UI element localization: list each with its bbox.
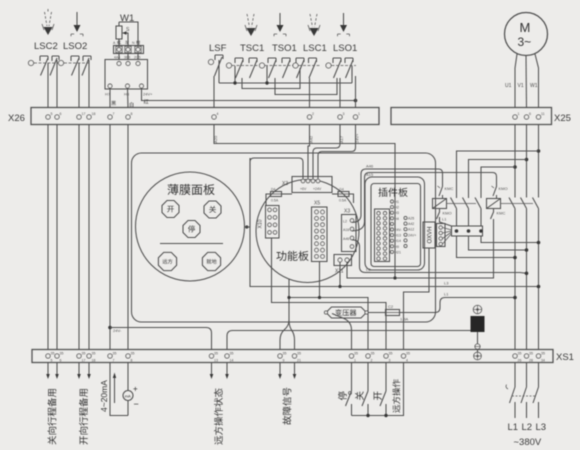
svg-text:4~20mA: 4~20mA [99, 380, 109, 412]
wire LSO2 to X26-17 [78, 75, 80, 108]
svg-text:A12: A12 [408, 228, 414, 232]
KMO aux contact [492, 183, 508, 199]
wire LSF to X26-4 [213, 76, 215, 108]
svg-text:D4: D4 [271, 188, 276, 192]
svg-text:L2: L2 [343, 220, 347, 224]
svg-text:H14: H14 [395, 239, 401, 243]
wire LSC2 to X26-6 [56, 60, 58, 108]
wire X26-7 to XS1 (24V-) [109, 125, 111, 350]
torque switch TSC1 contacts [226, 58, 260, 78]
potentiometer wiper arrow with S [122, 27, 130, 46]
wire membrane panel to X3 pin1 [245, 158, 304, 229]
fuse G4 0.5A [332, 188, 354, 204]
pushbutton stop [346, 363, 352, 416]
svg-text:0.5A: 0.5A [339, 199, 347, 203]
svg-text:X26: X26 [8, 113, 25, 124]
svg-text:A20: A20 [213, 135, 218, 143]
svg-text:4: 4 [406, 359, 408, 363]
wire L1 fuse to phase U [400, 292, 517, 313]
svg-text:LSF: LSF [209, 43, 227, 54]
wire LSF second pole down to link rail [218, 60, 220, 83]
svg-text:2: 2 [312, 112, 314, 116]
terminal strip X25 [391, 108, 571, 125]
svg-text:5: 5 [51, 359, 53, 363]
svg-text:TSC1: TSC1 [240, 43, 264, 54]
title membrane panel [167, 184, 214, 195]
svg-text:24V+: 24V+ [143, 92, 153, 97]
svg-text:L3: L3 [444, 281, 449, 286]
current loop 4-20mA [110, 363, 139, 416]
wire 24V+ from X26-1 to X3 pin4 [318, 125, 360, 179]
svg-text:1: 1 [358, 112, 360, 116]
svg-text:13: 13 [214, 359, 218, 363]
svg-text:H1: H1 [395, 200, 400, 204]
label remote operate [392, 379, 400, 412]
svg-text:6: 6 [529, 112, 531, 116]
svg-text:24V-: 24V- [113, 328, 122, 333]
button close [204, 201, 221, 218]
junction phase W tap [537, 149, 541, 153]
wire phase U to KMC pole3 [481, 167, 515, 198]
svg-text:LSC1: LSC1 [303, 43, 327, 54]
button stop [183, 221, 200, 238]
svg-text:L2: L2 [522, 422, 533, 433]
svg-text:35: 35 [406, 352, 410, 356]
button open [162, 201, 179, 218]
wire filter to XS1 PE [475, 332, 480, 352]
link rail feeding TSC1 TSO1 commons [219, 66, 352, 85]
svg-text:6: 6 [60, 112, 62, 116]
svg-text:G4: G4 [339, 188, 344, 192]
svg-text:A25: A25 [408, 217, 414, 221]
svg-text:KMO: KMO [499, 186, 508, 191]
limit switch LSO1 contacts [326, 58, 356, 78]
svg-text:7: 7 [113, 359, 115, 363]
wire X26-18 to XS1 [88, 125, 90, 350]
KMC interlock contact KMO [437, 209, 452, 227]
svg-text:L3: L3 [536, 422, 547, 433]
svg-text:X3: X3 [344, 209, 350, 215]
svg-text:A46: A46 [366, 164, 374, 169]
wire A46 rail to KMC aux [352, 164, 443, 223]
svg-text:1: 1 [354, 359, 356, 363]
wire X5 to XS1-2 with branch [289, 262, 368, 350]
wire status return rail [227, 331, 471, 350]
wire X26-5 to XS1 [47, 125, 49, 350]
wire rail to X26-1 [355, 101, 357, 108]
svg-text:18: 18 [92, 112, 96, 116]
KMO interlock contact KMC [491, 209, 506, 220]
svg-text:X3: X3 [282, 181, 288, 187]
button remote [158, 252, 176, 270]
contactor coil KMC [433, 199, 447, 209]
connector X3 right [342, 209, 357, 252]
label close travel spare [47, 389, 56, 444]
svg-text:H4: H4 [395, 217, 400, 221]
fuse D4 0.5A [266, 188, 292, 206]
filter block [471, 316, 485, 332]
svg-text:A17: A17 [339, 135, 344, 143]
svg-text:1.3A: 1.3A [400, 317, 409, 322]
svg-text:35: 35 [297, 352, 301, 356]
label fault signal [282, 388, 291, 425]
svg-text:H9: H9 [395, 245, 400, 249]
svg-text:35: 35 [529, 352, 533, 356]
motor M 3~ [505, 13, 548, 56]
svg-text:KMC: KMC [497, 211, 506, 216]
svg-text:V1: V1 [518, 83, 524, 89]
svg-text:3~: 3~ [518, 35, 532, 49]
pushbutton open [380, 363, 386, 416]
limit switch LSC2 contacts [28, 56, 59, 76]
wire XS1-1 to transformer [332, 314, 352, 350]
limit switch LSC1 contacts [293, 58, 320, 78]
svg-text:TSO1: TSO1 [272, 43, 297, 54]
cable gland OXVH [423, 222, 435, 248]
W1 terminal strip [114, 46, 144, 54]
junction A20 to KMO coil rail [393, 276, 396, 279]
wire motor W1 [535, 54, 539, 108]
svg-text:H2: H2 [395, 206, 400, 210]
gland connector pins [437, 224, 446, 247]
label remote operate status [214, 388, 223, 444]
wire A17 from X26-3 to X3 pin3 [313, 125, 344, 179]
svg-text:8: 8 [131, 112, 133, 116]
wire X10 to XS1-3 [272, 238, 387, 350]
transformer [324, 307, 368, 318]
plug-in board test pins column A [404, 217, 416, 248]
XS1 terminal circles with pin numbers [46, 352, 545, 363]
svg-text:35: 35 [51, 352, 55, 356]
contactor coil KMO [487, 199, 501, 209]
svg-text:6: 6 [60, 359, 62, 363]
XS1 PE terminal (earth) [474, 352, 482, 360]
wire W1 top to third strip pin [119, 22, 138, 46]
function board circle [256, 180, 359, 283]
svg-text:~380V: ~380V [514, 437, 542, 448]
connector X11 [334, 255, 352, 275]
svg-text:18: 18 [92, 359, 96, 363]
common rail to remote terminal [352, 363, 404, 418]
wire H8 white to X26-8 [127, 88, 130, 108]
svg-text:H8: H8 [124, 92, 130, 97]
svg-text:35: 35 [214, 352, 218, 356]
wire phase V X25 to XS1 [526, 125, 528, 350]
wires gland to terminal block [443, 228, 452, 245]
svg-text:C2: C2 [388, 304, 394, 309]
svg-text:35: 35 [131, 352, 135, 356]
crossover wire pole2 to phase V [469, 236, 529, 252]
fuse C2 1.3A [368, 304, 409, 322]
svg-text:+: + [133, 385, 138, 394]
cam symbol above LSC2 (dashed torque arrow) [42, 9, 54, 35]
plug-in board outline [371, 184, 421, 267]
wire phase W X25 to XS1 [538, 125, 540, 350]
wire L2 wrap around plug-in board to phase V [352, 240, 528, 275]
svg-text:2C5: 2C5 [134, 56, 140, 60]
wires strip to converter box [119, 54, 138, 60]
potentiometer W1 resistor body [116, 22, 122, 46]
svg-text:35: 35 [354, 352, 358, 356]
wire KMO coil to X11 [347, 219, 494, 278]
cam symbol above LSC1 [308, 14, 320, 36]
X25 terminal circles pins 1 6 11 [513, 112, 545, 119]
wire LSO2 to X26-18 [88, 60, 90, 108]
svg-text:35: 35 [283, 352, 287, 356]
label 4-20mA with arrow [99, 373, 116, 413]
supply switch poles [506, 363, 539, 419]
svg-text:−: − [134, 399, 139, 409]
control enclosure outline [132, 153, 436, 322]
svg-text:17: 17 [82, 112, 86, 116]
earth symbol top [473, 305, 481, 313]
fault signal wires [278, 363, 296, 380]
svg-text:X25: X25 [554, 113, 571, 124]
svg-text:35: 35 [518, 352, 522, 356]
X26 terminal circles with pin numbers [46, 112, 360, 119]
svg-text:2: 2 [371, 359, 373, 363]
svg-text:3: 3 [389, 359, 391, 363]
svg-text:X5: X5 [314, 201, 320, 207]
travel arrow above TSO1 [274, 13, 286, 36]
plug-in board cable loop [365, 177, 425, 270]
svg-text:5: 5 [51, 112, 53, 116]
wire 24V- rail to remote status [110, 328, 212, 350]
wire 24V+ red to switch common rail [142, 88, 356, 101]
wire X26-8 to XS1 [127, 125, 129, 350]
wire motor V1 [525, 56, 528, 108]
wire phase W to KMC pole1 [457, 151, 539, 198]
svg-text:X10: X10 [258, 219, 264, 228]
svg-text:+6V: +6V [300, 187, 307, 191]
svg-text:L2: L2 [366, 267, 371, 272]
button local [202, 252, 220, 270]
svg-text:4: 4 [217, 112, 219, 116]
wire phase V to KMC pole2 [469, 160, 527, 199]
svg-text:8: 8 [131, 359, 133, 363]
KMC main contacts [447, 198, 482, 227]
svg-text:LSC2: LSC2 [34, 41, 58, 52]
wire LSC2 to X26-5 [47, 75, 49, 108]
KMC aux contact [438, 183, 454, 199]
svg-text:3B9: 3B9 [124, 56, 130, 60]
svg-text:H21: H21 [395, 250, 401, 254]
crossover wire pole3 to phase W [481, 236, 540, 244]
svg-text:34: 34 [541, 359, 545, 363]
svg-text:KMC: KMC [445, 186, 454, 191]
KMO main contacts on phase lines [501, 198, 539, 209]
plug-in board test pins column H [391, 200, 403, 254]
cam symbol above TSC1 [245, 14, 257, 36]
pushbutton close [362, 363, 368, 416]
junction 24V+ rail to LSO1 [352, 66, 357, 102]
svg-text:L1: L1 [508, 422, 519, 433]
wire L3 from membrane rail to phase W [250, 158, 540, 288]
terminal strip X26 [8, 108, 379, 125]
svg-text:14: 14 [230, 359, 234, 363]
plug-in board edge connector [375, 209, 390, 262]
svg-text:U1: U1 [505, 83, 512, 89]
connector X5 [312, 201, 328, 262]
svg-text:24V+: 24V+ [408, 233, 416, 237]
junction phase V tap [525, 158, 529, 162]
svg-text:35: 35 [541, 352, 545, 356]
wire function board to fault terminals [280, 279, 295, 350]
svg-text:A46: A46 [343, 237, 349, 241]
svg-text:L1: L1 [444, 292, 449, 297]
svg-text:35: 35 [230, 352, 234, 356]
spare open-travel wires [77, 363, 91, 380]
svg-text:35: 35 [371, 352, 375, 356]
label open travel spare [79, 389, 88, 444]
wire A42 from X26-2 to X3 pin2 [308, 125, 314, 179]
svg-text:LSO2: LSO2 [63, 41, 87, 52]
remote status wires [210, 363, 229, 380]
svg-text:3: 3 [343, 112, 345, 116]
wire LSC1 to X26-2 [309, 78, 311, 108]
svg-text:35: 35 [82, 352, 86, 356]
svg-text:A42: A42 [408, 222, 414, 226]
limit switch LSO2 contacts [58, 56, 91, 76]
svg-text:26: 26 [518, 359, 522, 363]
svg-text:X11: X11 [335, 269, 344, 275]
svg-text:H13: H13 [395, 234, 401, 238]
svg-text:A15: A15 [366, 172, 374, 177]
svg-text:21: 21 [297, 359, 301, 363]
switch LSF [208, 55, 223, 76]
wire color labels black white red [111, 101, 116, 106]
svg-text:M: M [520, 20, 531, 35]
wire H7 black to X26-7 [109, 88, 111, 108]
wire motor U1 [515, 54, 517, 108]
svg-text:KMO: KMO [443, 211, 452, 216]
svg-text:17: 17 [82, 359, 86, 363]
spare close-travel wires [46, 363, 59, 380]
svg-text:11: 11 [541, 112, 545, 116]
travel arrow above LSO2 [71, 12, 83, 36]
svg-text:28: 28 [529, 359, 533, 363]
wire remote terminal to gland [404, 248, 430, 350]
svg-text:+24V: +24V [313, 187, 322, 191]
svg-text:35: 35 [92, 352, 96, 356]
separator line [160, 243, 223, 245]
svg-text:mA: mA [125, 393, 131, 398]
svg-text:1: 1 [518, 112, 520, 116]
wire LSO1 to X26-3 [339, 78, 341, 108]
svg-text:35: 35 [389, 352, 393, 356]
connector X10 [258, 206, 280, 239]
svg-text:XS1: XS1 [556, 352, 574, 363]
crossover wire pole1 to phase U [457, 236, 517, 259]
svg-text:35: 35 [60, 352, 64, 356]
junction 24V- [108, 326, 122, 333]
title function board [276, 251, 308, 261]
svg-text:0.5A: 0.5A [271, 199, 279, 203]
svg-text:7: 7 [113, 112, 115, 116]
wire phase U X25 to XS1 [514, 125, 516, 350]
wire X11 to L3 rail [338, 262, 341, 288]
torque switch TSO1 contacts [259, 58, 293, 78]
wire A15 rail to KMO aux [352, 172, 497, 231]
svg-text:L1: L1 [442, 217, 447, 222]
title plug-in board [378, 188, 407, 197]
connector X3 top header [282, 177, 332, 193]
svg-text:24V+: 24V+ [355, 133, 360, 143]
junction phase U tap [513, 165, 517, 169]
link wire TSC1 to LSC1 [242, 68, 300, 89]
svg-text:35: 35 [113, 352, 117, 356]
wire X26-6 to XS1 [56, 125, 58, 350]
svg-text:A16: A16 [343, 228, 349, 232]
svg-text:LSO1: LSO1 [333, 43, 357, 54]
svg-text:9: 9 [283, 359, 285, 363]
svg-text:H3: H3 [395, 211, 400, 215]
membrane panel circle [136, 172, 245, 281]
svg-text:W1: W1 [530, 83, 538, 89]
svg-text:24V-: 24V- [395, 228, 403, 232]
travel arrow above LSO1 [338, 13, 350, 36]
svg-text:A42: A42 [309, 135, 314, 143]
wire X26-17 to XS1 [78, 125, 80, 350]
motor terminal block [452, 226, 483, 236]
signal converter box [105, 60, 148, 90]
terminal strip XS1 [32, 350, 574, 364]
wire A20 from X26-4 to plug-in board [213, 125, 395, 279]
svg-text:OXVH: OXVH [428, 226, 434, 243]
link wire TSO1 to LSO1 [275, 78, 337, 95]
